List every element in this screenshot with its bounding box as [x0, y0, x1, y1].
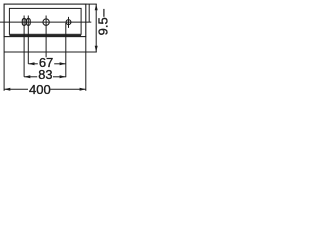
- 9.5 dimension line vertical: [95, 4, 97, 52]
- merged bottom edges filler band: [9, 34, 81, 36]
- 83 dimension line right segment with arrow: [53, 76, 66, 78]
- knockout circle D: [66, 20, 71, 25]
- svg-text:83: 83: [38, 67, 52, 82]
- inner panel rectangle: [9, 8, 81, 34]
- 400 dimension right extension (body right edge extended): [85, 37, 87, 91]
- 400 dimension line left segment with arrow: [4, 88, 28, 90]
- slot B vertical extension line down to 67 dimension: [27, 16, 29, 64]
- circle C vertical centerline: [45, 16, 47, 58]
- mounting slot A: [22, 19, 26, 26]
- mounting slot B: [27, 19, 31, 26]
- 9.5 dimension top arrow: [95, 4, 98, 10]
- right extension line for 67 and 83 dimensions: [65, 23, 67, 77]
- 83 dimension line left segment with arrow: [24, 76, 37, 78]
- knockout circle C: [43, 19, 49, 25]
- svg-text:9.5: 9.5: [96, 17, 111, 35]
- circle D vertical centerline: [68, 17, 70, 28]
- horizontal centerline: [0, 21, 91, 23]
- tick bar above 9.5 label: [103, 9, 105, 17]
- short bar right of body: [88, 4, 90, 22]
- svg-text:400: 400: [29, 82, 51, 97]
- 400 dimension left extension (body left edge extended): [3, 37, 5, 91]
- 9.5 dimension bottom arrow: [95, 46, 98, 52]
- 67 dimension line right segment with arrow: [54, 63, 66, 65]
- slot A vertical extension line down to 83 dimension: [23, 16, 25, 77]
- top edge extension line to 9.5 dimension: [86, 3, 97, 5]
- 67 dimension line left segment with arrow: [28, 63, 38, 65]
- bottom reference line (9.5 dim lower extension): [4, 51, 97, 53]
- 400 dimension line right segment with arrow: [50, 88, 86, 90]
- outer body rectangle: [4, 4, 86, 37]
